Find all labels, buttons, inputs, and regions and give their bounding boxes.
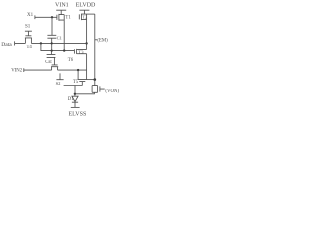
node junction VIN2/T5 (77, 69, 79, 71)
transistor T6 (51, 65, 58, 70)
wire EM vertical (94, 14, 96, 80)
wire EM branch (87, 13, 95, 15)
svg-text:T5: T5 (73, 80, 79, 85)
wire T5 gate control (64, 85, 83, 87)
transistor T1 (57, 14, 64, 21)
wire T5 left vertical (77, 70, 79, 80)
transistor T7 (92, 80, 105, 93)
wire T7 bottom (75, 92, 95, 93)
wire X1 to T1 gate (35, 15, 57, 19)
svg-text:Cst: Cst (45, 60, 52, 65)
transistor T5 (78, 80, 87, 86)
node junction dataline/T2 (85, 42, 87, 44)
wire jog to wireB (41, 43, 74, 50)
wire T2 drain down (86, 20, 88, 50)
wire data (15, 41, 87, 45)
svg-text:X1: X1 (27, 13, 34, 18)
svg-text:S2: S2 (56, 81, 62, 86)
svg-text:(VON): (VON) (105, 89, 119, 94)
power terminal VIN1 (56, 10, 66, 14)
terminal S1 scan (25, 31, 32, 36)
svg-text:VIN2: VIN2 (11, 69, 23, 74)
svg-text:D1: D1 (68, 97, 74, 102)
node junction C1/data (51, 42, 53, 44)
wire T1 source down (63, 20, 65, 50)
svg-text:Data: Data (1, 42, 12, 48)
svg-text:VIN1: VIN1 (55, 3, 69, 9)
diode D1 (OLED) (74, 94, 76, 96)
svg-text:ELVDD: ELVDD (76, 3, 96, 9)
wire gate node vertical (51, 17, 53, 35)
wire VIN2 (24, 68, 87, 72)
svg-text:T6: T6 (68, 58, 74, 63)
node junction T1/wireB (63, 49, 65, 51)
power terminal ELVDD (79, 10, 89, 14)
svg-text:(EM): (EM) (97, 38, 108, 43)
transistor T3 (74, 49, 86, 54)
svg-text:T2: T2 (83, 14, 88, 19)
node junction X1/C1 (51, 16, 53, 18)
node junction C1/wireB (51, 50, 53, 52)
svg-text:S1: S1 (25, 25, 31, 30)
wire T3 source down (86, 54, 88, 80)
transistor T2 (79, 14, 86, 21)
net label EM (95, 39, 97, 41)
wire C1 bottom lead (51, 38, 53, 50)
node junction EM/EL (94, 78, 97, 81)
svg-text:C1: C1 (57, 35, 63, 40)
transistor T4 (25, 36, 32, 44)
wire T5 to D1 jog (74, 86, 76, 94)
svg-text:T1: T1 (65, 16, 71, 21)
terminal S2 (56, 73, 63, 79)
node junction data/jog (40, 42, 42, 44)
svg-text:ELVSS: ELVSS (69, 112, 87, 118)
wire Cst bottom lead (53, 57, 55, 65)
svg-text:T3: T3 (78, 49, 84, 54)
wire emission node (87, 79, 95, 81)
capacitor Cst (47, 51, 56, 58)
svg-text:T4: T4 (27, 45, 33, 50)
node junction D1 anode (74, 93, 76, 95)
power terminal ELVSS (71, 106, 80, 108)
capacitor C1 (47, 35, 56, 38)
